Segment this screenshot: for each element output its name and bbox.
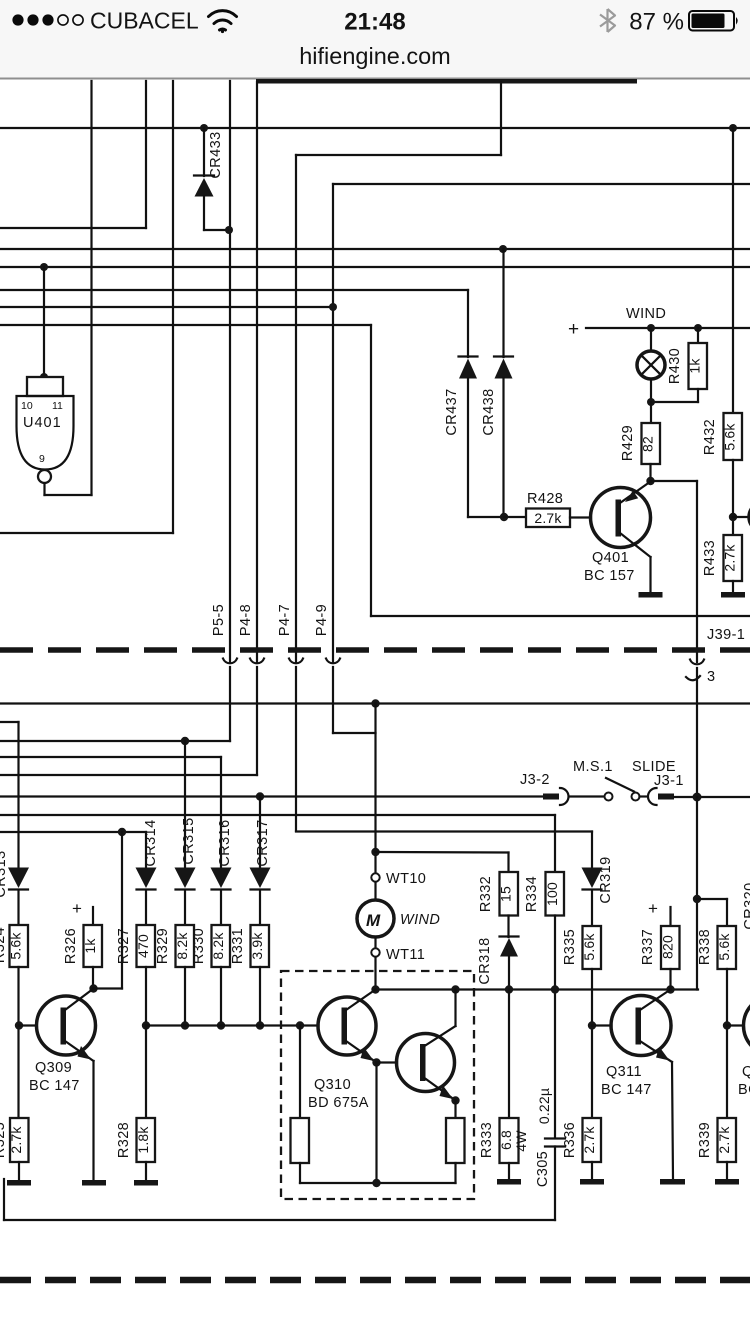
switch J3-1 contact	[640, 788, 750, 805]
svg-text:21:48: 21:48	[344, 9, 405, 36]
wire to R428	[504, 516, 526, 518]
resistor R330	[212, 925, 231, 967]
svg-text:R327: R327	[116, 928, 132, 964]
svg-text:2.7k: 2.7k	[716, 1126, 732, 1154]
svg-text:U401: U401	[23, 415, 62, 431]
wire Q312 base	[727, 1024, 744, 1026]
lamp DS401	[637, 328, 665, 402]
svg-text:P4-8: P4-8	[238, 604, 254, 636]
ground R336	[580, 1179, 604, 1185]
wire base Q310 second	[377, 1061, 398, 1063]
wire bus y325	[0, 324, 371, 326]
wire x697 down to R338 node	[696, 797, 698, 899]
connector pin P4-7	[289, 659, 303, 832]
connector pin P4-8	[250, 659, 264, 776]
wire vertical x221 CR316 column	[220, 757, 222, 868]
svg-text:2.7k: 2.7k	[8, 1126, 24, 1154]
svg-text:CR433: CR433	[208, 131, 224, 178]
svg-text:R329: R329	[155, 928, 171, 964]
wire ground return left stub	[3, 1179, 5, 1220]
svg-text:R334: R334	[524, 876, 540, 912]
svg-text:4W: 4W	[513, 1130, 529, 1152]
junction second emitter node	[451, 1096, 459, 1104]
svg-text:1.8k: 1.8k	[135, 1126, 151, 1154]
junction R326 collector riser	[118, 828, 126, 836]
diode CR438	[494, 249, 513, 517]
transistor Q310 first	[318, 990, 377, 1063]
wire bus y290	[0, 289, 468, 291]
junction CR438 feed	[499, 245, 507, 253]
wire vertical x257 pin P4-8 upper	[256, 82, 258, 662]
svg-text:5.6k: 5.6k	[722, 423, 738, 451]
junction R328 node	[142, 1021, 150, 1029]
wire vertical x122	[121, 832, 123, 989]
diode CR319	[582, 832, 603, 927]
svg-text:WT10: WT10	[386, 871, 426, 887]
junction R430 top	[694, 324, 702, 332]
svg-text:R333: R333	[479, 1122, 495, 1158]
svg-text:BC 147: BC 147	[601, 1082, 652, 1098]
wire R331 down	[259, 967, 261, 1026]
junction lamp bottom node	[647, 398, 655, 406]
wire bus y741	[0, 740, 230, 742]
junction R432 net	[729, 124, 737, 132]
wire vertical x296 pin P4-7 upper	[295, 155, 297, 662]
svg-text:WIND: WIND	[400, 912, 440, 928]
ground R325	[7, 1180, 31, 1186]
resistor R337	[661, 907, 680, 990]
resistor R329	[176, 925, 195, 967]
svg-text:J3-2: J3-2	[520, 772, 550, 788]
svg-text:CR437: CR437	[444, 388, 460, 435]
resistor R327	[137, 925, 156, 967]
wire vertical x146 CR314 column	[145, 832, 147, 868]
resistor R332	[500, 872, 519, 937]
switch lever	[606, 778, 634, 792]
connector pin J39-1	[686, 660, 704, 798]
wire R324 to base	[17, 967, 19, 1118]
svg-text:J39-1: J39-1	[707, 627, 745, 643]
svg-text:R432: R432	[702, 419, 718, 455]
resistor R429	[642, 402, 661, 481]
switch M.S.1 J3-2 contact	[543, 788, 604, 805]
wire Q311 base	[592, 1024, 612, 1026]
wire vertical x371	[370, 325, 372, 616]
transistor Q310 second	[397, 990, 456, 1101]
wire module bottom rail	[300, 1182, 456, 1184]
junction R331 node	[256, 1021, 264, 1029]
connector pin P5-5	[223, 659, 237, 742]
junction P4-9 line y307	[329, 303, 337, 311]
wire R329 down	[184, 967, 186, 1026]
junction lamp top	[647, 324, 655, 332]
svg-text:P4-9: P4-9	[314, 604, 330, 636]
bluetooth icon	[600, 9, 615, 32]
svg-text:1k: 1k	[82, 938, 98, 954]
svg-text:R338: R338	[697, 929, 713, 965]
svg-text:8.2k: 8.2k	[210, 932, 226, 960]
wire y852 to R332	[376, 852, 509, 872]
junction CR318 node	[505, 985, 513, 993]
junction Q312 base node	[723, 1021, 731, 1029]
wire bus y249	[0, 248, 750, 250]
wire bus y307	[0, 306, 333, 308]
bottom board separator dashed	[0, 1277, 750, 1284]
wire horizontal y184	[333, 183, 750, 185]
junction Q311 base node	[588, 1021, 596, 1029]
junction R332 branch	[371, 848, 379, 856]
ground Q311 emitter	[660, 1179, 685, 1185]
junction Q310b collector tie	[451, 985, 459, 993]
signal strength dots	[12, 14, 83, 25]
wire bus y267	[0, 266, 750, 268]
ground R328	[134, 1180, 158, 1186]
resistor R335	[583, 926, 602, 1026]
motor feed vertical x375	[374, 704, 376, 874]
ground R333	[497, 1179, 521, 1185]
switch contact circle left	[605, 793, 613, 801]
svg-text:R326: R326	[63, 928, 79, 964]
transistor Q401	[591, 482, 651, 593]
svg-text:87 %: 87 %	[629, 9, 684, 36]
wire R338 feed	[697, 899, 727, 926]
resistor R333	[500, 990, 519, 1180]
wire emitter node down	[375, 1063, 377, 1184]
svg-text:WIND: WIND	[626, 306, 666, 322]
board separator dashed line	[0, 647, 750, 653]
svg-text:BD 675A: BD 675A	[308, 1095, 369, 1111]
junction Q309 base node	[15, 1021, 23, 1029]
wire bus y796 J3-2 lead	[0, 795, 544, 797]
svg-text:CR438: CR438	[481, 388, 497, 435]
diode CR318	[500, 937, 519, 990]
resistor R428	[526, 509, 591, 528]
battery icon	[689, 11, 738, 31]
wire horizontal y155	[296, 154, 501, 156]
status bar background	[0, 0, 750, 78]
svg-text:3.9k: 3.9k	[249, 932, 265, 960]
svg-text:CR313: CR313	[0, 850, 9, 897]
transistor Q402 partial	[749, 502, 750, 532]
junction R329 node	[181, 1021, 189, 1029]
wire horizontal y533	[0, 532, 173, 534]
wire bus y815	[0, 814, 555, 816]
wire vertical x18 CR313 column	[17, 722, 19, 868]
svg-text:5.6k: 5.6k	[8, 932, 24, 960]
schematic top border bar	[256, 79, 637, 84]
svg-text:R337: R337	[640, 929, 656, 965]
svg-text:J3-1: J3-1	[654, 773, 684, 789]
junction CR433 anode to x230	[225, 226, 233, 234]
wire bus y703	[0, 702, 750, 704]
resistor R432	[724, 128, 743, 535]
svg-text:100: 100	[544, 882, 560, 906]
wire vertical x260 CR317 column	[259, 797, 261, 869]
diode CR314	[136, 868, 157, 926]
svg-text:820: 820	[660, 935, 676, 959]
svg-text:CR320: CR320	[742, 882, 750, 929]
svg-text:R336: R336	[562, 1122, 578, 1158]
wire jog x555	[554, 815, 556, 832]
svg-text:8.2k: 8.2k	[174, 932, 190, 960]
junction Q401 emitter node	[646, 477, 654, 485]
transistor Q311	[611, 990, 673, 1180]
diode CR316	[211, 868, 232, 926]
svg-text:R331: R331	[230, 928, 246, 964]
wire bus y228	[0, 227, 146, 229]
resistor module right	[446, 1101, 465, 1184]
svg-text:M: M	[366, 911, 381, 930]
resistor R326	[84, 907, 103, 989]
svg-text:3: 3	[707, 669, 715, 685]
svg-text:470: 470	[135, 934, 151, 958]
svg-text:82: 82	[640, 436, 656, 452]
wire Q310 base bus	[146, 1024, 319, 1026]
svg-text:CR319: CR319	[598, 856, 614, 903]
switch contact circle right	[632, 793, 640, 801]
wire Q309 base	[19, 1024, 37, 1026]
svg-text:BC 147: BC 147	[29, 1078, 80, 1094]
resistor R430	[651, 328, 707, 402]
svg-text:CR314: CR314	[143, 819, 159, 866]
diode CR313	[8, 868, 29, 926]
terminal WT10	[371, 873, 379, 881]
junction left resistor drop	[296, 1021, 304, 1029]
svg-text:R433: R433	[702, 540, 718, 576]
svg-text:BC 147: BC 147	[738, 1082, 750, 1098]
svg-text:CUBACEL: CUBACEL	[90, 8, 199, 34]
wifi icon	[209, 11, 237, 34]
wire collector node to x122	[94, 987, 123, 989]
wire horizontal y831 P4-7 run	[296, 830, 592, 832]
wire x697 bottom corner	[696, 899, 698, 990]
resistor R334	[546, 832, 565, 1138]
transistor Q309	[37, 989, 96, 1181]
wire stub y722	[0, 721, 19, 723]
resistor R433	[724, 535, 743, 592]
junction R330 node	[217, 1021, 225, 1029]
svg-text:CR316: CR316	[217, 819, 233, 866]
wire WT11 down	[374, 957, 376, 990]
svg-text:+: +	[648, 899, 658, 918]
wire vertical x333 pin P4-9 upper	[332, 184, 334, 662]
svg-text:BC 157: BC 157	[584, 568, 635, 584]
svg-text:Q309: Q309	[35, 1060, 72, 1076]
svg-text:11: 11	[52, 400, 63, 412]
svg-text:CR315: CR315	[181, 817, 197, 864]
wire horizontal y616	[371, 615, 750, 617]
svg-text:2.7k: 2.7k	[581, 1126, 597, 1154]
ground Q309 emitter	[82, 1180, 106, 1186]
junction R334 node	[551, 985, 559, 993]
junction motor feed	[371, 699, 379, 707]
svg-text:10: 10	[21, 400, 33, 412]
capacitor C305	[545, 1139, 565, 1221]
junction Q310 emitter node	[372, 1058, 380, 1066]
wire bus y775	[0, 774, 257, 776]
diode CR317	[250, 868, 271, 926]
junction R428 input node	[500, 513, 508, 521]
svg-text:Q401: Q401	[592, 550, 629, 566]
svg-text:0.22µ: 0.22µ	[536, 1088, 552, 1124]
junction U401 feed	[40, 263, 48, 271]
svg-text:9: 9	[39, 453, 45, 465]
wire vertical x185 CR315 column	[184, 741, 186, 868]
wire collector bus y990	[376, 988, 699, 990]
junction CR315 feed	[181, 737, 189, 745]
resistor R324	[10, 925, 29, 967]
svg-text:1k: 1k	[687, 358, 703, 374]
svg-text:R328: R328	[116, 1122, 132, 1158]
wire to Q402	[733, 516, 749, 518]
svg-text:R332: R332	[478, 876, 494, 912]
junction R337 collector node	[666, 985, 674, 993]
wire bus y832 left	[0, 831, 146, 833]
resistor R325	[10, 1118, 29, 1180]
nand gate U401	[17, 267, 92, 495]
junction J3-1 node	[693, 793, 702, 802]
wire ground return y1220	[4, 1219, 555, 1221]
svg-text:2.7k: 2.7k	[722, 544, 738, 572]
resistor R336	[583, 1026, 602, 1180]
svg-text:C305: C305	[535, 1151, 551, 1187]
junction CR317 feed	[256, 792, 264, 800]
svg-text:Q310: Q310	[314, 1077, 351, 1093]
diode CR433	[194, 128, 229, 230]
ground Q401 collector	[639, 592, 663, 598]
terminal WT11	[371, 948, 379, 956]
svg-text:P5-5: P5-5	[211, 604, 227, 636]
svg-text:Q312: Q312	[742, 1064, 750, 1080]
svg-text:+: +	[72, 899, 82, 918]
svg-text:R428: R428	[527, 491, 563, 507]
svg-text:+: +	[568, 319, 579, 340]
wire bus y757	[0, 756, 221, 758]
wire left resistor column	[299, 1026, 301, 1119]
svg-text:R325: R325	[0, 1122, 8, 1158]
svg-text:CR317: CR317	[255, 819, 271, 866]
ground R339	[715, 1179, 739, 1185]
junction Q309 collector node	[89, 984, 97, 992]
motor M WIND	[357, 882, 394, 948]
wire vertical x173	[172, 81, 174, 533]
svg-text:R429: R429	[620, 425, 636, 461]
wire R330 down	[220, 967, 222, 1026]
resistor module left	[291, 1118, 310, 1183]
diode CR315	[175, 868, 196, 926]
svg-text:M.S.1: M.S.1	[573, 759, 613, 775]
svg-text:5.6k: 5.6k	[716, 933, 732, 961]
ground R433	[721, 592, 745, 598]
svg-text:R330: R330	[191, 928, 207, 964]
wire vertical x697 J39-1	[696, 481, 698, 662]
resistor R331	[251, 925, 270, 967]
junction Q402 base node	[729, 513, 737, 521]
wire horizontal y328	[586, 327, 750, 329]
svg-text:R339: R339	[697, 1122, 713, 1158]
module dashed box Q310	[281, 971, 474, 1199]
svg-text:CR318: CR318	[477, 937, 493, 984]
resistor R339	[718, 1118, 737, 1179]
junction WT11 collector node	[371, 985, 379, 993]
resistor R338	[718, 926, 737, 1118]
resistor R328	[137, 1026, 156, 1181]
svg-text:WT11: WT11	[386, 947, 425, 963]
svg-text:6.8: 6.8	[498, 1130, 514, 1150]
svg-text:P4-7: P4-7	[277, 604, 293, 636]
svg-text:Q311: Q311	[606, 1064, 642, 1080]
wire vertical x230 pin P5-5 upper	[229, 81, 231, 662]
svg-text:5.6k: 5.6k	[581, 933, 597, 961]
wire vertical x91 (U401 output net to top)	[90, 81, 92, 495]
svg-text:hifiengine.com: hifiengine.com	[299, 43, 451, 69]
junction bottom rail	[372, 1179, 380, 1187]
wire R327 down	[145, 967, 147, 1026]
diode CR437	[459, 290, 505, 517]
svg-text:R335: R335	[562, 929, 578, 965]
svg-text:2.7k: 2.7k	[534, 510, 562, 526]
wire vertical x501 from top bar	[500, 82, 502, 155]
svg-text:R430: R430	[667, 348, 683, 384]
junction CR433 top	[200, 124, 208, 132]
transistor Q312 partial	[744, 996, 750, 1056]
wire bus y128	[0, 127, 750, 129]
junction R338 branch node	[693, 895, 701, 903]
connector pin P4-9	[326, 659, 376, 734]
wire emitter node to x697	[651, 480, 698, 482]
svg-text:15: 15	[498, 886, 514, 902]
wire vertical x146 top	[145, 81, 147, 228]
